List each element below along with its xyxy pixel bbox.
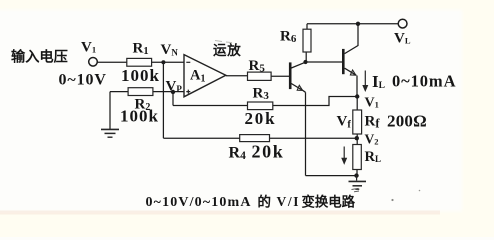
svg-text:20k: 20k: [245, 109, 277, 128]
svg-text:0~10V/0~10mA: 0~10V/0~10mA: [146, 195, 252, 210]
svg-text:100k: 100k: [121, 66, 160, 85]
svg-text:100k: 100k: [120, 107, 159, 126]
svg-text:200Ω: 200Ω: [387, 112, 427, 131]
svg-text:V/I: V/I: [277, 194, 301, 209]
svg-text:Rf: Rf: [365, 114, 381, 131]
svg-text:的: 的: [258, 194, 272, 210]
svg-text:运放: 运放: [213, 42, 242, 58]
svg-text:0~10V: 0~10V: [59, 72, 107, 89]
svg-text:变换电路: 变换电路: [302, 194, 356, 210]
svg-text:输入电压: 输入电压: [11, 49, 68, 66]
svg-text:0~10mA: 0~10mA: [392, 72, 456, 91]
svg-text:20k: 20k: [252, 142, 285, 162]
